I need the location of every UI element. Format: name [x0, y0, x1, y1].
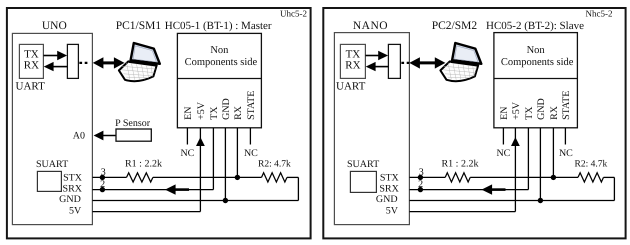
svg-text:TX: TX	[524, 106, 535, 120]
svg-text:2: 2	[418, 179, 423, 190]
svg-text:UART: UART	[16, 80, 46, 92]
svg-text:GND: GND	[59, 194, 81, 205]
svg-text:Uhc5-2: Uhc5-2	[280, 9, 307, 19]
svg-text:RX: RX	[233, 105, 244, 120]
svg-text:SRX: SRX	[379, 183, 399, 194]
svg-text:UNO: UNO	[42, 20, 67, 32]
svg-text:R2: 4.7k: R2: 4.7k	[575, 160, 608, 170]
svg-text:2: 2	[100, 179, 105, 190]
svg-text:RX: RX	[549, 105, 560, 120]
svg-text:+5V: +5V	[511, 101, 522, 120]
svg-text:5V: 5V	[69, 206, 82, 217]
svg-text:STX: STX	[63, 173, 83, 184]
svg-text:NC: NC	[244, 148, 258, 159]
svg-text:R1 : 2.2k: R1 : 2.2k	[125, 158, 162, 169]
svg-text:GND: GND	[536, 98, 547, 120]
svg-text:SUART: SUART	[36, 159, 68, 170]
svg-text:EN: EN	[183, 107, 194, 120]
svg-text:STATE: STATE	[246, 91, 257, 120]
svg-text:TX: TX	[346, 48, 361, 60]
svg-text:5V: 5V	[386, 206, 399, 217]
svg-text:PC2/SM2: PC2/SM2	[432, 20, 478, 32]
svg-text:PC1/SM1: PC1/SM1	[116, 20, 162, 32]
svg-text:R2: 4.7k: R2: 4.7k	[258, 160, 291, 170]
svg-text:Nhc5-2: Nhc5-2	[586, 9, 613, 19]
svg-text:3: 3	[101, 167, 106, 178]
svg-text:NC: NC	[180, 148, 194, 159]
svg-text:HC05-1 (BT-1) : Master: HC05-1 (BT-1) : Master	[165, 20, 272, 32]
svg-text:A0: A0	[73, 130, 85, 141]
svg-text:RX: RX	[24, 60, 39, 72]
svg-text:HC05-2 (BT-2): Slave: HC05-2 (BT-2): Slave	[486, 20, 584, 32]
svg-text:GND: GND	[221, 98, 232, 120]
svg-text:TX: TX	[24, 48, 39, 60]
svg-text:+5V: +5V	[196, 101, 207, 120]
svg-text:RX: RX	[345, 60, 360, 72]
svg-text:GND: GND	[376, 194, 398, 205]
svg-text:NC: NC	[559, 148, 573, 159]
svg-text:Non: Non	[527, 45, 546, 56]
svg-text:EN: EN	[499, 107, 510, 120]
svg-text:Components side: Components side	[185, 57, 258, 68]
svg-text:TX: TX	[209, 106, 220, 120]
svg-text:STX: STX	[380, 173, 400, 184]
svg-text:STATE: STATE	[561, 91, 572, 120]
svg-text:3: 3	[419, 167, 424, 178]
svg-text:SUART: SUART	[347, 159, 379, 170]
svg-text:NC: NC	[496, 148, 510, 159]
svg-text:Non: Non	[210, 45, 229, 56]
svg-text:Components side: Components side	[501, 57, 574, 68]
svg-text:SRX: SRX	[63, 183, 83, 194]
svg-text:R1 : 2.2k: R1 : 2.2k	[442, 158, 479, 169]
svg-text:UART: UART	[336, 80, 366, 92]
svg-text:NANO: NANO	[353, 20, 388, 32]
svg-text:P Sensor: P Sensor	[115, 118, 151, 129]
